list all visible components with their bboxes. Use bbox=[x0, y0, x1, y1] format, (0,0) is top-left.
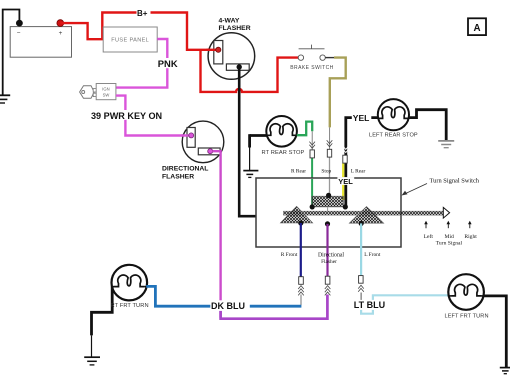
svg-text:DK BLU: DK BLU bbox=[211, 301, 245, 311]
svg-text:RT FRT TURN: RT FRT TURN bbox=[111, 303, 149, 309]
svg-text:+: + bbox=[59, 30, 63, 37]
svg-text:Directional: Directional bbox=[318, 253, 344, 259]
svg-text:Turn Signal: Turn Signal bbox=[436, 241, 463, 247]
svg-text:A: A bbox=[473, 23, 480, 34]
svg-text:L Front: L Front bbox=[364, 252, 381, 258]
svg-text:39 PWR KEY ON: 39 PWR KEY ON bbox=[91, 111, 162, 121]
svg-text:IGN: IGN bbox=[102, 87, 109, 92]
svg-text:FLASHER: FLASHER bbox=[219, 25, 251, 32]
svg-text:RT REAR STOP: RT REAR STOP bbox=[262, 150, 305, 156]
svg-text:4-WAY: 4-WAY bbox=[219, 18, 240, 25]
svg-text:DIRECTIONAL: DIRECTIONAL bbox=[162, 166, 208, 173]
svg-text:Right: Right bbox=[464, 234, 477, 240]
svg-text:FUSE PANEL: FUSE PANEL bbox=[111, 38, 149, 44]
svg-text:Flasher: Flasher bbox=[321, 259, 337, 265]
svg-text:Mid: Mid bbox=[445, 234, 455, 240]
svg-text:LEFT FRT TURN: LEFT FRT TURN bbox=[445, 313, 489, 319]
svg-text:PNK: PNK bbox=[158, 58, 178, 69]
svg-text:LEFT REAR STOP: LEFT REAR STOP bbox=[369, 132, 418, 138]
svg-text:Left: Left bbox=[424, 233, 434, 240]
svg-text:LT BLU: LT BLU bbox=[354, 300, 385, 310]
svg-text:YEL: YEL bbox=[338, 177, 353, 186]
svg-text:Stop: Stop bbox=[321, 169, 331, 175]
svg-text:YEL: YEL bbox=[353, 113, 370, 123]
svg-text:R Front: R Front bbox=[281, 252, 298, 258]
svg-text:−: − bbox=[17, 30, 21, 37]
svg-text:L Rear: L Rear bbox=[351, 168, 366, 174]
svg-text:R Rear: R Rear bbox=[291, 169, 306, 175]
svg-text:SW: SW bbox=[103, 92, 110, 97]
svg-text:BRAKE SWITCH: BRAKE SWITCH bbox=[290, 65, 333, 71]
svg-text:FLASHER: FLASHER bbox=[162, 173, 194, 180]
svg-text:B+: B+ bbox=[137, 9, 148, 18]
svg-text:Turn Signal Switch: Turn Signal Switch bbox=[430, 178, 480, 185]
